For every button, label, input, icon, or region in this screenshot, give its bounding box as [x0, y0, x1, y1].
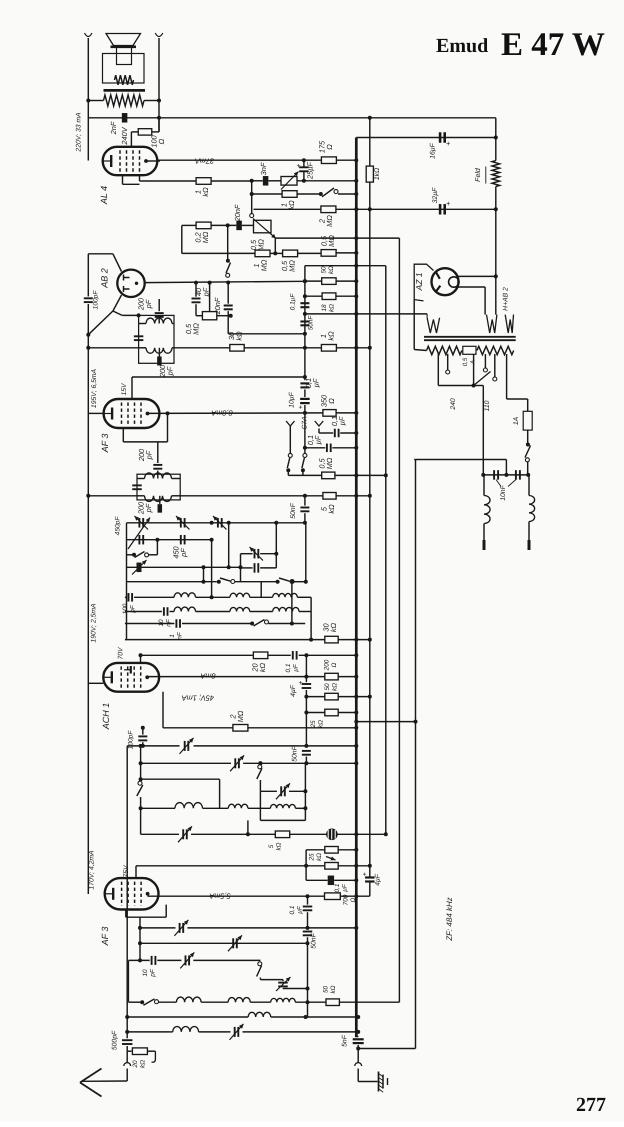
svg-text:pF: pF	[144, 299, 153, 309]
capacitor 0.1uF AF3b	[303, 906, 313, 908]
svg-text:kΩ: kΩ	[140, 1060, 147, 1068]
trimmer padder black	[137, 563, 142, 573]
trimmer capacitor padder	[241, 553, 253, 555]
wire tuner line T4	[127, 566, 241, 568]
resistor 1 kOhm (screen)	[321, 345, 336, 352]
junction top bus / speaker right	[157, 116, 161, 120]
junction bus bottom	[356, 1047, 360, 1051]
wire rail D top link	[414, 459, 506, 461]
capacitor 3nF	[263, 176, 269, 186]
junction speaker right	[157, 99, 161, 103]
svg-text:ZF: 484 kHz: ZF: 484 kHz	[445, 897, 454, 942]
transformer primary right	[477, 346, 514, 354]
trimmer filter a	[185, 955, 187, 965]
wire fuse feed	[507, 398, 528, 400]
svg-text:0,5: 0,5	[462, 357, 469, 366]
svg-text:20nF: 20nF	[233, 204, 242, 222]
svg-text:50nF: 50nF	[292, 745, 299, 761]
capacitor 200 pF (AB2 diode)	[158, 299, 160, 311]
coil output 1	[248, 1012, 271, 1017]
wire 40pF branch	[195, 283, 197, 297]
grid hook left	[286, 421, 294, 426]
svg-text:MΩ: MΩ	[201, 231, 210, 243]
capacitor 100pF (rail)	[84, 297, 93, 299]
resistor 2 MOhm	[233, 725, 248, 732]
wire top HT bus	[88, 117, 496, 119]
capacitor 10nF mains b	[515, 470, 517, 480]
ground symbol	[378, 1072, 380, 1092]
capacitor 200 pF IF2	[159, 496, 161, 504]
wire 240V node to AL4	[130, 132, 132, 148]
wire 18k line	[305, 295, 322, 297]
coil osc b	[228, 804, 248, 808]
svg-text:50nF: 50nF	[308, 315, 315, 331]
svg-text:50nF: 50nF	[290, 502, 297, 518]
wire v T1-T4	[228, 523, 230, 568]
capacitor 20nF (black)	[236, 221, 242, 231]
coil band coil b2	[230, 607, 250, 611]
antenna symbol	[80, 1069, 102, 1083]
wire osc line2	[141, 762, 231, 764]
svg-text:MΩ: MΩ	[257, 239, 266, 251]
switch filter	[258, 962, 262, 966]
junction 1M/0.5M	[273, 251, 277, 255]
svg-text:450pF: 450pF	[115, 516, 122, 536]
left rail vertical	[87, 254, 89, 297]
capacitor 16uF	[439, 132, 442, 143]
wire ACH1 triode line	[162, 692, 164, 728]
IF transformer 2 box	[137, 474, 180, 500]
capacitor 4uF ACH1	[302, 683, 312, 685]
svg-text:pF: pF	[179, 548, 188, 558]
speaker voice-coil box	[117, 47, 132, 65]
trimmer AF3b b	[232, 938, 234, 948]
svg-text:+: +	[446, 199, 451, 208]
svg-text:AB 2: AB 2	[100, 268, 110, 289]
switch band T5b	[276, 580, 280, 584]
capacitor 50nF AF3b	[303, 931, 313, 933]
grid hook right	[315, 421, 323, 426]
resistor 1 kOhm dropper	[366, 166, 373, 182]
capacitor IF1 coupling	[134, 335, 144, 337]
svg-text:4µF: 4µF	[290, 684, 297, 697]
capacitor 20nF (AB2)	[224, 305, 233, 307]
svg-text:Ω: Ω	[331, 662, 338, 667]
wire v to 1nF line	[291, 582, 293, 624]
wire speaker left lead	[87, 38, 89, 161]
wire 20nF bottom link	[228, 333, 305, 335]
svg-text:45V; 1mA: 45V; 1mA	[182, 694, 214, 703]
switch band T3	[127, 554, 133, 556]
wire AZ1 filament lead	[456, 286, 485, 288]
svg-text:µF: µF	[338, 416, 347, 425]
trimmer osc grid	[184, 741, 186, 751]
dial lamp	[326, 829, 338, 841]
switch hook mid	[304, 448, 306, 453]
capacitor padder fixed	[241, 567, 253, 569]
rail B	[356, 265, 386, 267]
wire ACH1 anode line	[148, 676, 325, 678]
resistor 50 kOhm ACH1	[325, 693, 338, 700]
trimmer capacitor T1a	[138, 518, 140, 528]
output transformer secondary winding	[115, 75, 134, 85]
output transformer primary winding	[104, 95, 145, 106]
svg-text:kΩ: kΩ	[329, 304, 336, 312]
svg-text:16µF: 16µF	[430, 142, 437, 158]
svg-text:190V; 2,5mA: 190V; 2,5mA	[91, 603, 98, 643]
svg-text:Ω: Ω	[325, 144, 334, 150]
wire 0.1uF black line	[306, 879, 327, 881]
svg-text:MΩ: MΩ	[325, 457, 334, 469]
wire AF3 grid top line	[132, 376, 305, 378]
svg-text:µF: µF	[342, 883, 349, 892]
resistor 25 kOhm a	[325, 847, 338, 854]
wire AF3 cathode lead	[88, 412, 103, 414]
wire osc left vertical with switch	[140, 746, 142, 763]
svg-text:µF: µF	[297, 905, 304, 914]
resistor 50 kOhm AB2	[322, 278, 336, 285]
svg-text:kΩ: kΩ	[327, 504, 336, 514]
tube AB2	[117, 270, 144, 297]
capacitor 0.1uF AB2 chain	[300, 302, 309, 304]
wire AF3b anode line	[148, 895, 325, 897]
svg-text:50: 50	[322, 986, 329, 994]
wire pot wiper feed	[251, 194, 253, 214]
wire chain to output line	[307, 943, 309, 1017]
switch filter row	[143, 999, 154, 1005]
wire antenna vertical	[126, 746, 128, 1038]
wire screen line AB2	[174, 347, 230, 349]
capacitor 10uF electrolytic	[300, 398, 310, 400]
trimmer filter b	[278, 982, 288, 984]
junction cathode net	[250, 179, 254, 183]
svg-text:240V: 240V	[120, 126, 129, 145]
resistor 1 kOhm (AL4)	[196, 178, 211, 185]
capacitor 50nF det	[304, 496, 306, 506]
svg-text:1A: 1A	[513, 416, 520, 425]
svg-text:Ω: Ω	[327, 398, 336, 404]
svg-text:8,8mA: 8,8mA	[211, 409, 232, 418]
wire chain AF3b top	[305, 850, 307, 881]
mains switch	[526, 443, 530, 447]
resistor 2 MOhm bleeder	[321, 206, 336, 213]
ACH1 triode anode bar	[130, 666, 132, 674]
wire diode load vertical	[209, 283, 211, 312]
wire AF3b cathode down	[139, 943, 141, 960]
svg-text:0,1: 0,1	[285, 663, 292, 672]
wire rail to IF2	[88, 495, 137, 497]
svg-text:0,1: 0,1	[289, 905, 296, 914]
capacitor 10nF mains a	[493, 470, 495, 480]
coil band coil b3	[273, 607, 299, 611]
svg-text:kΩ: kΩ	[201, 187, 210, 197]
mains plug pin left	[483, 540, 486, 550]
trimmer lamp line	[182, 829, 184, 839]
svg-text:195V; 6,5mA: 195V; 6,5mA	[91, 368, 98, 408]
variable capacitor 450pF gang b	[180, 535, 182, 545]
svg-text:MΩ: MΩ	[260, 259, 269, 271]
svg-text:1kΩ: 1kΩ	[374, 168, 381, 180]
capacitor 10 nF tuner	[125, 611, 162, 613]
wire 0.1uF line b	[304, 413, 306, 448]
wire output line 2	[127, 1031, 170, 1033]
svg-text:10nF: 10nF	[500, 484, 507, 500]
wire 0.2M line	[182, 224, 196, 226]
wire osc right vertical	[304, 763, 306, 820]
svg-text:+: +	[299, 405, 303, 412]
field coil Feld	[492, 161, 500, 187]
svg-text:kΩ: kΩ	[329, 622, 338, 632]
wire filter left edge	[127, 960, 129, 1001]
wire osc box bottom	[260, 819, 305, 821]
wire AF3b line3	[140, 942, 308, 944]
tube AZ1 tag	[414, 264, 433, 301]
wire AB2 anode line	[145, 281, 305, 282]
wire AB2 top lead	[88, 253, 113, 255]
wire v T1 to coil row	[211, 540, 213, 598]
mains choke left	[483, 475, 485, 496]
capacitor 0.1uF ACH1	[292, 651, 294, 660]
wire AF3b top lines	[306, 849, 325, 851]
wire AL4 anode line	[146, 160, 160, 162]
jack ground	[357, 1049, 359, 1063]
coil band coil a2	[230, 593, 250, 597]
svg-text:kΩ: kΩ	[332, 683, 339, 691]
wire tuner right vertical	[305, 523, 307, 582]
svg-text:2nF: 2nF	[109, 121, 118, 135]
wire AB2 bottom lead	[113, 295, 122, 311]
svg-text:nF: nF	[177, 631, 184, 640]
resistor 30 kOhm osc	[325, 636, 338, 643]
tube AF3 output IF	[105, 878, 159, 909]
wire AF3 cathode down	[157, 442, 159, 463]
capacitor 500pF	[122, 1039, 133, 1041]
rail right B+ down to AZ1	[495, 209, 497, 314]
svg-text:200: 200	[323, 659, 330, 671]
wire detector line	[180, 495, 323, 497]
trimmer output	[234, 1027, 236, 1037]
svg-text:25: 25	[308, 853, 315, 862]
wire AL4 cathode box	[122, 175, 124, 184]
svg-text:4µF: 4µF	[375, 873, 382, 886]
wire v T5 to coil row	[260, 582, 262, 598]
wire chain AF3b	[307, 896, 309, 904]
capacitor 4uF rail A	[365, 876, 375, 878]
svg-text:50: 50	[320, 266, 327, 274]
output transformer secondary box	[103, 54, 145, 84]
coil osc c	[270, 804, 295, 808]
coil IF2 primary	[145, 473, 172, 479]
wire trimmer b branch	[260, 979, 283, 981]
svg-text:kΩ: kΩ	[318, 720, 325, 728]
wire speaker right lead	[158, 38, 160, 132]
svg-text:ACH 1: ACH 1	[101, 703, 111, 731]
wire osc line3	[141, 778, 220, 780]
svg-text:5,5mA: 5,5mA	[209, 892, 230, 901]
wire heater line left stub	[303, 312, 307, 316]
transformer core	[424, 336, 516, 338]
resistor 175 Ohm	[321, 157, 336, 164]
capacitor 32uF	[439, 204, 442, 215]
resistor 700 Ohm	[325, 893, 341, 900]
resistor 0.5 MOhm (AB2 load)	[202, 312, 216, 320]
svg-text:50nF: 50nF	[311, 932, 318, 948]
capacitor 100 pF tuner	[125, 596, 127, 598]
svg-text:32µF: 32µF	[432, 187, 439, 203]
capacitor 5nF (bus bottom)	[353, 1038, 364, 1040]
svg-text:25µF: 25µF	[306, 162, 315, 180]
rail right feld	[495, 118, 497, 161]
switch osc	[258, 761, 262, 765]
wire bus to rail D bottom	[358, 1048, 415, 1050]
svg-text:100: 100	[122, 603, 129, 614]
capacitor 40pF	[192, 298, 201, 300]
switch hook left	[288, 453, 292, 457]
svg-text:pF: pF	[144, 503, 153, 513]
speaker horn	[106, 34, 141, 46]
wire cap chain ACH1	[305, 655, 307, 682]
voltage selector arm	[474, 372, 491, 386]
coil filter b	[228, 998, 250, 1003]
coil filter row / 50k output line	[128, 1001, 142, 1003]
wire 20nF branch	[227, 283, 229, 304]
trimmer osc 3	[280, 786, 282, 796]
junction bus tone line	[354, 179, 358, 183]
svg-text:kΩ: kΩ	[235, 331, 244, 341]
capacitor 50nF AB2 chain	[300, 320, 309, 322]
fuse 1A	[523, 411, 532, 430]
trimmer capacitor T1c	[217, 518, 219, 528]
wire 25k line ACH1	[306, 712, 324, 714]
wire mains caps line	[483, 474, 528, 476]
trimmer capacitor T1b	[180, 518, 182, 528]
wire tuner top line T1	[127, 522, 305, 524]
resistor 0.5 MOhm b	[321, 250, 336, 257]
svg-text:AZ 1: AZ 1	[414, 272, 424, 291]
junction top bus / 1k dropper	[368, 116, 372, 120]
coil IF1 secondary	[146, 348, 172, 353]
resistor 20 kOhm	[253, 652, 268, 659]
svg-text:Emud: Emud	[436, 35, 488, 57]
coil band coil a3	[273, 593, 298, 597]
resistor 50 kOhm out	[326, 999, 339, 1006]
wire AL4 cathode line	[140, 180, 197, 182]
svg-text:5nF: 5nF	[342, 1034, 349, 1047]
wire 1M line	[182, 252, 256, 254]
switch band T5a	[217, 580, 221, 584]
junction anode/25uF	[302, 158, 306, 162]
variable capacitor 450pF gang a	[138, 535, 140, 545]
svg-text:0,1: 0,1	[334, 883, 341, 892]
svg-text:kΩ: kΩ	[316, 853, 323, 861]
coil band coil b1	[174, 607, 195, 611]
coil output 2	[173, 1027, 199, 1032]
wire padder left vertical	[240, 554, 242, 582]
wire HT line y137.5	[356, 137, 496, 139]
svg-text:kΩ: kΩ	[258, 662, 267, 672]
svg-text:kΩ: kΩ	[330, 985, 337, 993]
svg-text:kΩ: kΩ	[287, 200, 296, 210]
svg-text:nF: nF	[166, 618, 173, 627]
potentiometer 0.5 MOhm body	[254, 220, 272, 233]
capacitor IF2 coupling	[132, 484, 142, 486]
wire ACH1 grid top	[140, 655, 142, 663]
svg-text:kΩ: kΩ	[327, 331, 336, 341]
mains plug pin right	[528, 540, 531, 550]
svg-text:µF: µF	[314, 435, 323, 444]
coil IF2 secondary	[145, 496, 172, 502]
wire IF1 secondary line	[88, 347, 138, 349]
svg-text:MΩ: MΩ	[192, 323, 201, 335]
svg-text:pF: pF	[150, 968, 157, 978]
svg-text:MΩ: MΩ	[236, 710, 245, 722]
svg-text:277: 277	[576, 1094, 606, 1116]
coil IF1 primary	[146, 318, 172, 323]
trimmer AF3b a	[179, 923, 181, 933]
svg-text:AL 4: AL 4	[99, 186, 109, 205]
wire AF3 anode line	[148, 412, 323, 415]
svg-text:AF 3: AF 3	[100, 434, 110, 454]
tube AL4	[103, 147, 158, 175]
main HT bus (thick)	[355, 138, 358, 1038]
mains choke right	[528, 475, 530, 496]
svg-text:kΩ: kΩ	[328, 266, 335, 274]
svg-text:3nF: 3nF	[259, 162, 268, 175]
wire AF3 screen box	[167, 413, 169, 442]
wire bus to rail D	[356, 721, 415, 723]
resistor 25 kOhm ACH1	[325, 709, 338, 716]
junction speaker left	[86, 99, 90, 103]
potentiometer tone control	[281, 177, 297, 186]
potentiometer 0.5 MOhm wiper arrow	[253, 219, 276, 239]
transformer primary left	[427, 346, 462, 354]
svg-text:50: 50	[324, 683, 331, 691]
svg-text:MΩ: MΩ	[288, 260, 297, 272]
svg-text:+: +	[363, 872, 367, 879]
svg-text:µF: µF	[312, 378, 321, 387]
resistor 30 kOhm	[230, 345, 244, 352]
svg-text:MΩ: MΩ	[325, 215, 334, 227]
coil band coil a1	[174, 593, 195, 597]
svg-text:8mA: 8mA	[200, 672, 215, 681]
rail A (1k dropper feed)	[369, 118, 371, 166]
vertical rail C	[398, 238, 400, 1002]
wire AZ1 left lead	[413, 300, 415, 350]
primary taps	[437, 354, 439, 377]
wire osc line4	[260, 790, 277, 792]
wire coil row a right	[310, 597, 312, 639]
wire selector output	[437, 377, 439, 386]
wire AB2 diode lead	[122, 314, 138, 316]
svg-text:H+AB 2: H+AB 2	[503, 287, 510, 311]
resistor 1 MOhm	[255, 250, 270, 257]
tube ACH1	[103, 663, 159, 692]
capacitor 10 pF	[151, 956, 153, 965]
output transformer core	[104, 89, 146, 92]
resistor 18 kOhm	[322, 293, 336, 300]
wire AF3b screen box	[125, 910, 127, 918]
switch 1nF line	[250, 622, 254, 626]
svg-text:0,1µF: 0,1µF	[290, 293, 297, 311]
wire line 265 left part	[305, 265, 356, 267]
svg-text:100pF: 100pF	[93, 290, 100, 310]
coil osc a	[141, 807, 175, 809]
capacitor 0.1uF (black)	[328, 876, 334, 886]
junction bus 175 Ohm	[354, 158, 358, 162]
junction rail A ends	[368, 207, 372, 211]
wire ACH1 screen line	[141, 654, 253, 656]
svg-text:20: 20	[132, 1060, 139, 1069]
